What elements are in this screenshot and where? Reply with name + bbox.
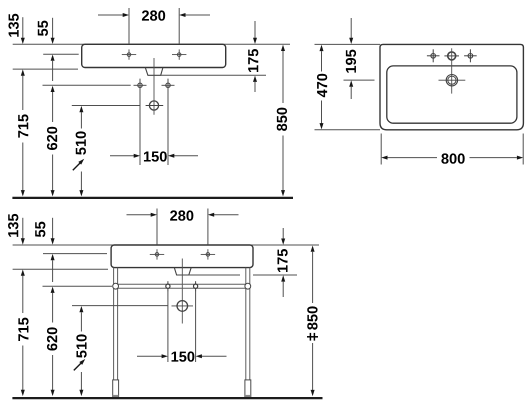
- dimension label 850 with height-adjust symbol (front view): [307, 306, 318, 340]
- wall fixing right (front view): [194, 281, 198, 291]
- fixing hole left (side view): [134, 83, 147, 87]
- dimension 470 lower arrow: [320, 101, 324, 130]
- dimension 280 line and arrows: [98, 13, 210, 17]
- dimension label 510 (side view): [76, 131, 86, 154]
- dimension 620 upper arrow: [51, 86, 55, 122]
- tap hole cross right (side view): [172, 49, 186, 59]
- dimension 715 line upper segment (front view): [22, 276, 24, 314]
- dimension 800 extension line right: [522, 134, 524, 165]
- drain hole (plan view): [439, 75, 466, 86]
- dimension 620 line lower segment: [51, 155, 55, 197]
- dimension 510 line lower segment: [79, 172, 83, 197]
- dimension 715 line lower segment: [21, 143, 25, 197]
- tap hole left cross (plan view): [427, 49, 440, 62]
- dimension label 715 (front view): [18, 318, 28, 341]
- drain trapezoid (front view): [174, 268, 191, 275]
- dimension 195 upper arrow: [349, 18, 353, 44]
- dimension 510 upper arrow: [79, 106, 83, 129]
- extension line bottom edge left (plan view): [315, 129, 381, 131]
- foot right (front view): [245, 380, 251, 397]
- extension line from left fixing hole down to 150 dim: [139, 79, 141, 165]
- tap hole cross left (side view): [122, 49, 136, 59]
- dimension 850 lower segment (side view): [281, 136, 285, 197]
- siphon outlet circle (front view): [172, 301, 194, 312]
- washbasin outer rim (plan view): [380, 44, 523, 129]
- dimension 55 lower arrow: [51, 55, 55, 82]
- dimension 470 upper arrow: [320, 45, 324, 72]
- dimension 715 line upper segment: [22, 75, 24, 110]
- extension line: 510 siphon level (side view): [72, 105, 140, 107]
- dimension label 175 (side view): [248, 49, 258, 72]
- dimension label 620 (side view): [47, 127, 57, 150]
- dimension 850 lower segment (front view): [311, 343, 315, 396]
- rail joint right (front view): [245, 283, 251, 289]
- dimension label 135 (side view): [8, 14, 18, 37]
- extension line: 620 rail level (front view): [43, 285, 113, 287]
- extension line from left fixing down to 150 dim (front view): [167, 291, 169, 363]
- console leg right (front view): [246, 268, 250, 385]
- dimension label 800 (plan view): [441, 153, 464, 163]
- dimension label 510 (front view): [76, 334, 86, 357]
- extension line: 175 level (front view): [189, 274, 297, 276]
- console rail (front view): [116, 284, 248, 288]
- dimension 150 line and arrows (front view): [137, 354, 227, 358]
- adjustability arrow NE (front view): [74, 358, 87, 371]
- dimension 150 line and arrows (side view): [110, 154, 198, 158]
- dimension 510 upper arrow (front view): [79, 306, 83, 332]
- extension line from right fixing down to 150 dim (front view): [195, 291, 197, 363]
- dimension 55 upper arrow: [51, 18, 55, 44]
- dimension 135 upper arrow: [21, 17, 25, 44]
- extension line 195 level (plan view): [344, 79, 375, 81]
- dimension label 280 (front view): [170, 210, 193, 220]
- centerline tap hole to drain (plan view): [451, 48, 453, 93]
- washbasin body (front view): [111, 245, 253, 268]
- dimension 280 extension line left (front view): [156, 209, 158, 245]
- foot left (front view): [113, 380, 119, 397]
- dimension 800 extension line left: [380, 134, 382, 165]
- extension line: top edge level (side view): [13, 43, 290, 45]
- dimension label 620 (front view): [47, 327, 57, 350]
- extension line: 620 fixing level (side view): [43, 84, 131, 86]
- adjustability arrow NE (side view): [73, 157, 86, 170]
- dimension 280 extension line right: [178, 8, 180, 44]
- dimension label 150 (side view): [144, 151, 167, 161]
- extension line: 55 level (side view): [43, 53, 78, 55]
- dimension 135 lower arrow (front view): [21, 270, 25, 276]
- dimension 195 lower arrow: [349, 80, 353, 99]
- extension line from right fixing hole down to 150 dim: [167, 79, 169, 165]
- dimension 850 upper arrow (front view): [311, 246, 315, 304]
- dimension 280 extension line right (front view): [207, 209, 209, 245]
- dimension 510 line lower segment (front view): [79, 372, 83, 396]
- console leg left (front view): [114, 268, 118, 385]
- extension line: 135 level (side view): [13, 68, 78, 70]
- dimension 175 lower arrow (front view): [281, 275, 285, 297]
- extension line: 510 siphon level (front view): [72, 305, 168, 307]
- dimension label 850 (side view): [277, 108, 287, 131]
- siphon outlet circle (side view): [146, 101, 164, 110]
- dimension label 55 (front view): [35, 222, 45, 237]
- wall fixing left (front view): [166, 281, 170, 291]
- dimension label 280 (side view): [142, 10, 165, 20]
- dimension label 470 (plan view): [317, 74, 327, 98]
- floor line (side view): [12, 197, 293, 199]
- dimension label 195 (plan view): [346, 50, 356, 73]
- centerline through drain (front view): [181, 259, 183, 324]
- extension line top edge left (plan view): [315, 43, 381, 45]
- centerline through drain (side view): [153, 58, 155, 115]
- dimension label 55 (side view): [38, 21, 48, 36]
- dimension 850 upper arrow (side view): [281, 45, 285, 103]
- extension line: 55 level (front view): [43, 253, 107, 255]
- dimension 620 upper arrow (front view): [51, 287, 55, 323]
- dimension label 175 (front view): [277, 249, 287, 272]
- tap hole right cross (plan view): [464, 49, 477, 62]
- dimension 55 upper arrow (front view): [51, 218, 55, 245]
- extension line: 175 level (side view): [161, 74, 266, 76]
- dimension 55 lower arrow (front view): [51, 254, 55, 282]
- dimension 135/715 lower arrow at 135 level: [21, 69, 25, 75]
- dimension 715 line lower segment (front view): [21, 346, 25, 397]
- dimension 620 line lower segment (front view): [51, 355, 55, 396]
- dimension 175 upper arrow (front view): [281, 228, 285, 245]
- fixing hole right (side view): [162, 83, 175, 87]
- rail joint left (front view): [113, 283, 119, 289]
- dimension label 715 (side view): [18, 114, 28, 137]
- dimension 175 lower arrow (side view): [253, 76, 257, 92]
- extension line: top edge level (front view): [13, 244, 319, 246]
- tap hole middle (plan view): [444, 52, 459, 60]
- dimension label 150 (front view): [172, 351, 195, 361]
- dimension 280 line and arrows (front view): [127, 213, 239, 217]
- tap hole cross right (front view): [201, 249, 215, 259]
- dimension 280 extension line left: [128, 8, 130, 44]
- drain trapezoid (side view): [145, 68, 163, 76]
- dimension 800 line and arrows: [381, 156, 523, 160]
- floor line (front view): [12, 397, 322, 399]
- dimension 175 upper arrow (side view): [253, 21, 257, 44]
- washbasin inner bowl (plan view): [387, 66, 517, 123]
- washbasin body (side view): [82, 44, 226, 67]
- dimension 135 upper arrow (front view): [21, 218, 25, 245]
- tap hole cross left (front view): [150, 249, 164, 259]
- extension line: 135 level (front view): [13, 268, 108, 270]
- dimension label 135 (front view): [8, 214, 18, 237]
